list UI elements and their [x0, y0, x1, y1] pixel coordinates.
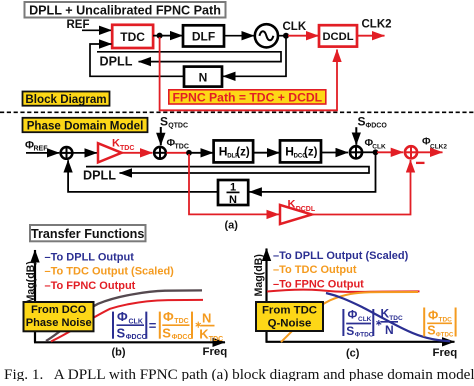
node Phase Domain Model label	[23, 118, 148, 133]
svg-text:TDC: TDC	[175, 144, 189, 151]
svg-text:Φ: Φ	[117, 309, 128, 324]
svg-text:S: S	[162, 326, 171, 341]
svg-text:Fig. 1. A DPLL with FPNC pat: Fig. 1. A DPLL with FPNC path (a) block …	[4, 366, 474, 381]
node phi TDC label	[167, 137, 189, 151]
plot c y-axis	[265, 249, 267, 343]
curve b DPLL output (dark)	[46, 290, 202, 341]
wire N output to TDC second input	[90, 44, 184, 76]
node formula c blue	[343, 307, 403, 339]
svg-text:N: N	[385, 323, 394, 337]
svg-text:Φ: Φ	[163, 309, 174, 324]
svg-text:Φ: Φ	[348, 308, 358, 322]
wire adder1 to K TDC	[74, 152, 98, 154]
svg-text:DCDL: DCDL	[322, 31, 353, 43]
svg-text:(z): (z)	[236, 147, 250, 159]
svg-text:QTDC: QTDC	[168, 122, 188, 129]
block 1/N divider	[218, 180, 248, 206]
node phi CLK2 label	[422, 136, 447, 151]
wire K DCDL up into red adder (negative input)	[312, 160, 411, 215]
svg-text:K: K	[288, 199, 296, 211]
svg-text:CLK2: CLK2	[362, 19, 392, 31]
svg-text:CLK: CLK	[358, 316, 372, 323]
plot b y-axis	[34, 250, 36, 342]
svg-text:(a): (a)	[225, 220, 239, 232]
svg-text:–To TDC Output: –To TDC Output	[273, 264, 357, 276]
svg-text:ΦTDC: ΦTDC	[355, 331, 374, 338]
svg-text:TDC: TDC	[120, 145, 134, 152]
svg-text:Φ: Φ	[428, 309, 438, 323]
svg-text:ΦTDC: ΦTDC	[436, 331, 454, 338]
wire REF arrow into TDC	[82, 29, 112, 31]
node phi CLK label	[365, 137, 386, 151]
node Block Diagram label	[23, 92, 110, 106]
svg-text:(b): (b)	[112, 347, 126, 359]
plot b x-axis	[34, 341, 225, 343]
svg-text:REF: REF	[34, 145, 49, 152]
svg-text:K: K	[112, 137, 120, 149]
svg-text:From TDC: From TDC	[262, 304, 317, 316]
svg-text:K: K	[381, 307, 390, 321]
svg-text:=: =	[149, 318, 157, 333]
block H DLF(z)	[214, 140, 254, 162]
node Transfer Functions label	[30, 225, 146, 241]
svg-text:Freq: Freq	[203, 346, 228, 358]
wire FPNC red path TDC node down right and up into DCDL	[160, 37, 337, 110]
wire H DLF to H DCO	[254, 152, 279, 154]
curve c DPLL output (blue)	[326, 293, 450, 341]
oscillator DCO	[255, 24, 278, 47]
svg-text:S: S	[358, 115, 366, 129]
node From DCO Phase Noise callout	[24, 302, 94, 331]
adder 2 (TDC quantization adder)	[154, 147, 166, 159]
svg-text:Phase Noise: Phase Noise	[26, 317, 92, 329]
curve b FPNC output (red)	[51, 300, 203, 342]
svg-text:ΦDCO: ΦDCO	[172, 334, 194, 341]
svg-text:CLK2: CLK2	[430, 144, 447, 151]
wire TDC to DLF	[153, 35, 183, 37]
block DLF	[183, 25, 224, 46]
node minus sign at red adder	[416, 162, 425, 164]
svg-text:Mag(dB): Mag(dB)	[253, 254, 265, 296]
node TDC output junction	[157, 33, 163, 39]
node phi REF label	[25, 140, 48, 153]
wire H DCO to adder 3	[321, 152, 348, 154]
adder 4 (FPNC subtractor, red)	[405, 146, 417, 158]
svg-text:–To DPLL Output (Scaled): –To DPLL Output (Scaled)	[273, 250, 409, 262]
svg-text:S: S	[427, 324, 435, 338]
svg-text:DPLL: DPLL	[83, 168, 116, 182]
wire adder2 to branch node (red)	[166, 152, 189, 154]
svg-text:N: N	[199, 70, 208, 84]
svg-text:–To TDC Output (Scaled): –To TDC Output (Scaled)	[45, 266, 175, 278]
svg-text:From DCO: From DCO	[31, 304, 87, 316]
svg-text:Q-Noise: Q-Noise	[268, 317, 312, 329]
wire S phiDCO into adder 3	[355, 127, 357, 145]
title box DPLL + Uncalibrated FPNC Path	[25, 2, 226, 18]
wire DCDL to CLK2 (red)	[357, 35, 385, 37]
svg-text:S: S	[346, 324, 354, 338]
node From TDC Q-Noise callout	[256, 302, 323, 331]
svg-text:ΦDCO: ΦDCO	[366, 123, 388, 130]
svg-text:DCDL: DCDL	[296, 206, 316, 213]
wire DLF to DCO	[224, 35, 254, 37]
wire DCO to CLK node	[278, 35, 288, 37]
svg-text:CLK: CLK	[372, 144, 386, 151]
node phi TDC branch junction	[186, 150, 192, 156]
svg-text:S: S	[117, 326, 126, 341]
node CLK junction	[283, 33, 289, 39]
wire branch to H DLF	[189, 152, 213, 154]
wire DPLL loop label arrow (phase model)	[86, 167, 369, 173]
amplifier K TDC	[98, 137, 134, 162]
block N divider	[184, 67, 222, 87]
block DCDL	[319, 25, 357, 46]
wire red adder to phi CLK2 out	[418, 151, 443, 153]
svg-text:ΦDCO: ΦDCO	[126, 334, 148, 341]
svg-text:TDC: TDC	[209, 336, 223, 343]
node FPNC Path = TDC + DCDL label	[169, 90, 326, 105]
wire dashed separator	[0, 111, 474, 113]
wire 1/N output to adder 1 bottom	[68, 160, 218, 192]
svg-text:DPLL: DPLL	[100, 54, 133, 68]
adder 3 (DCO noise adder)	[350, 146, 362, 158]
wire phi REF into adder 1	[26, 152, 59, 154]
svg-text:REF: REF	[67, 19, 90, 31]
svg-text:TDC: TDC	[174, 318, 188, 325]
wire S QTDC into adder 2	[160, 127, 162, 145]
svg-text:Phase Domain Model: Phase Domain Model	[27, 119, 144, 132]
svg-text:(c): (c)	[346, 348, 360, 360]
svg-text:H: H	[219, 145, 228, 159]
svg-text:TDC: TDC	[120, 30, 145, 44]
svg-text:DPLL + Uncalibrated FPNC Path: DPLL + Uncalibrated FPNC Path	[29, 4, 221, 18]
plot c x-axis	[266, 341, 455, 343]
wire K TDC to adder 2 (red)	[122, 152, 153, 154]
node S QTDC label	[160, 114, 188, 129]
node phi CLK junction	[373, 149, 379, 155]
svg-text:(z): (z)	[304, 147, 318, 159]
svg-text:N: N	[202, 311, 211, 326]
svg-text:Block Diagram: Block Diagram	[25, 93, 106, 106]
wire DPLL loop label arrow (top diagram)	[97, 52, 281, 62]
wire phi CLK to red adder	[377, 151, 403, 153]
svg-text:Transfer Functions: Transfer Functions	[31, 227, 144, 241]
svg-text:DLF: DLF	[192, 29, 215, 43]
block H DCO(z)	[280, 140, 321, 162]
svg-text:FPNC Path = TDC + DCDL: FPNC Path = TDC + DCDL	[172, 90, 322, 104]
adder 1 (reference summing junction)	[61, 147, 73, 159]
svg-text:CLK: CLK	[283, 21, 307, 33]
wire adder3 to phi CLK node	[363, 151, 378, 153]
svg-text:H: H	[285, 145, 294, 159]
svg-text:K: K	[199, 327, 209, 342]
svg-text:N: N	[229, 194, 237, 206]
wire red FPNC branch down to K DCDL	[189, 154, 279, 214]
svg-text:Mag(dB): Mag(dB)	[25, 261, 37, 303]
curve c TDC output (orange)	[281, 292, 418, 342]
svg-text:–To FPNC Output: –To FPNC Output	[45, 280, 136, 292]
wire CLK to DCDL (red)	[288, 35, 319, 37]
wire phi CLK feedback to 1/N	[249, 154, 375, 192]
node formula b	[113, 309, 223, 343]
node formula c orange	[424, 308, 455, 339]
svg-text:Freq: Freq	[433, 347, 458, 359]
block TDC	[112, 25, 153, 48]
node S phiDCO label	[358, 115, 388, 130]
amplifier K DCDL	[280, 199, 316, 225]
wire CLK feedback down to divider N	[223, 38, 286, 76]
svg-text:S: S	[160, 114, 168, 128]
curve c FPNC output (red)	[267, 290, 420, 292]
svg-text:–To FPNC Output: –To FPNC Output	[273, 278, 364, 290]
svg-text:–To DPLL Output: –To DPLL Output	[45, 251, 135, 263]
